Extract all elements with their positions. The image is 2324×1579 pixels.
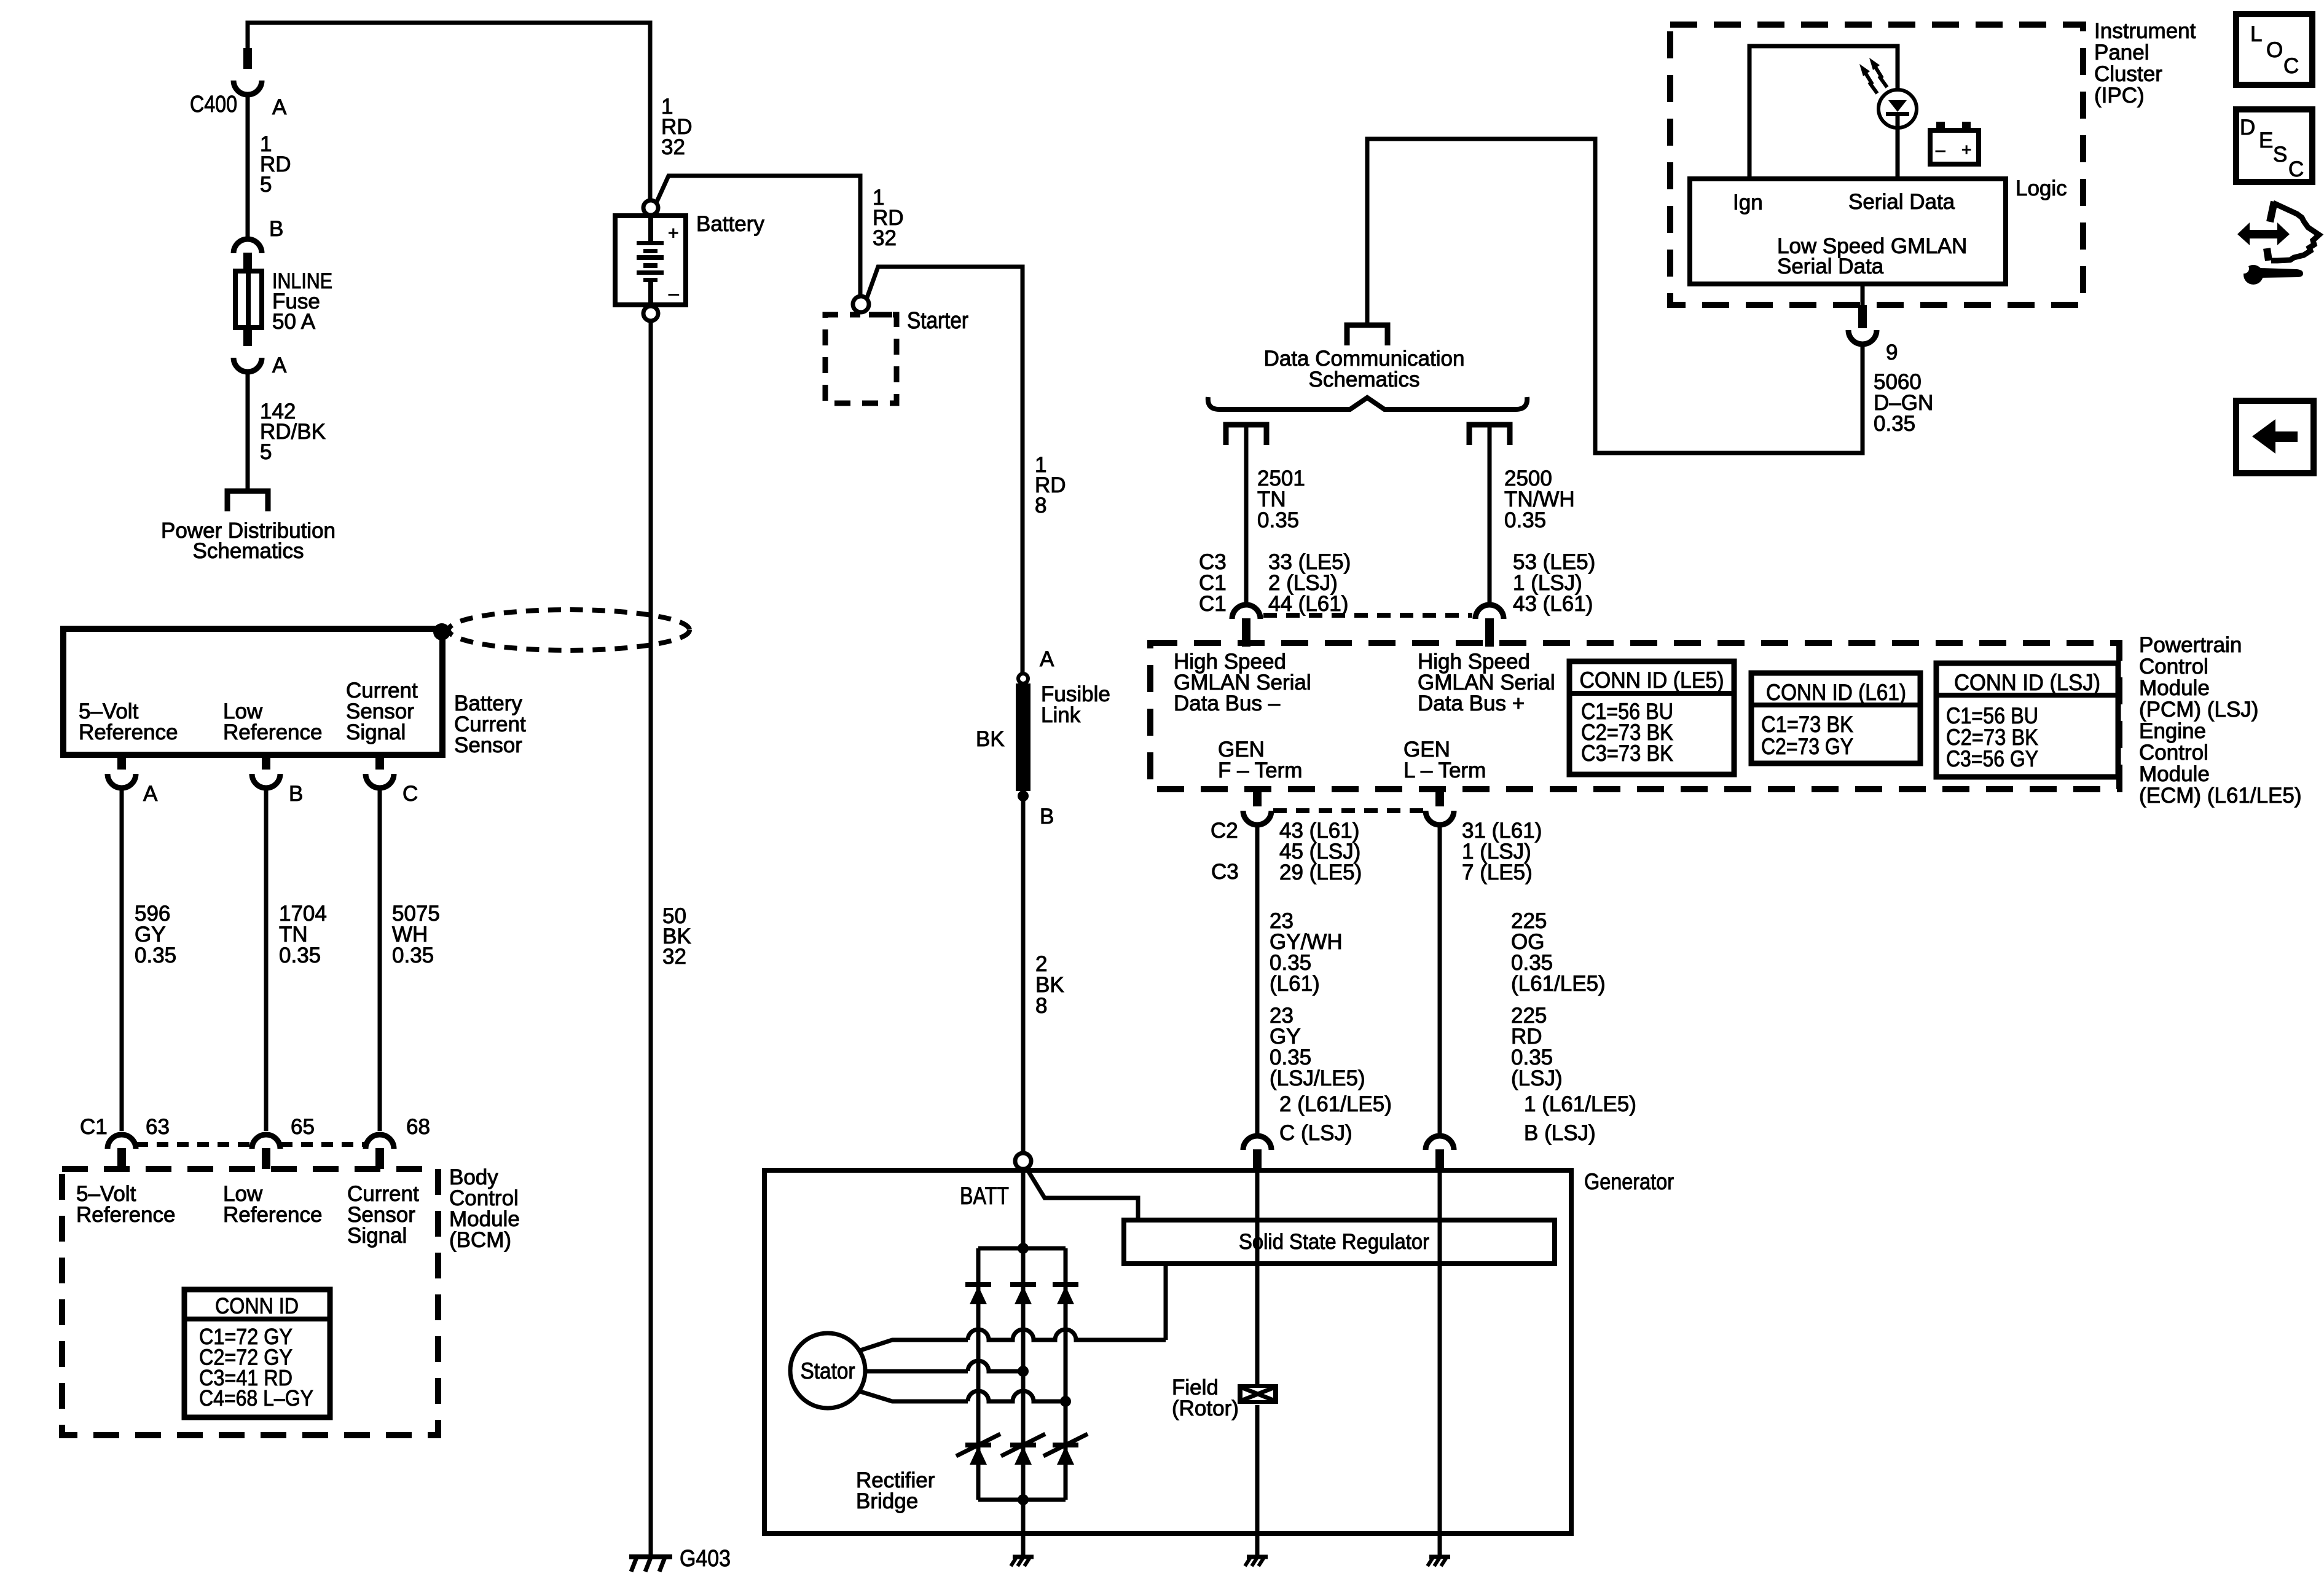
svg-text:Reference: Reference [79, 720, 178, 744]
wire 1 RD 8 from starter to fusible link [867, 267, 1023, 674]
off-page fork to data bus minus [1226, 425, 1266, 445]
svg-text:Schematics: Schematics [1309, 368, 1420, 392]
svg-text:5: 5 [260, 440, 272, 464]
dashed connector face line between data bus pins [1263, 613, 1472, 618]
svg-text:Solid State Regulator: Solid State Regulator [1239, 1230, 1429, 1254]
off-page reference to Power Distribution Schematics [227, 491, 268, 511]
svg-text:(L61/LE5): (L61/LE5) [1511, 972, 1606, 996]
svg-text:D: D [2240, 116, 2255, 140]
svg-text:A: A [1040, 647, 1054, 671]
wire L terminal through regulator to ground [1438, 1170, 1442, 1557]
svg-text:C1=73 BK: C1=73 BK [1761, 712, 1853, 737]
svg-text:CONN ID (LE5): CONN ID (LE5) [1580, 667, 1724, 693]
rectifier leg 1 [976, 1248, 981, 1500]
wire LED to logic box [1896, 116, 1900, 179]
svg-text:Control: Control [2139, 655, 2208, 679]
svg-text:C400: C400 [190, 92, 237, 117]
svg-text:29 (LE5): 29 (LE5) [1279, 860, 1362, 884]
legend DESC icon [2236, 109, 2312, 182]
connector C400 pin A [243, 48, 252, 69]
svg-text:Module: Module [2139, 762, 2210, 786]
svg-text:C3=56 GY: C3=56 GY [1946, 746, 2038, 771]
IPC battery telltale icon [1930, 130, 1979, 164]
connector F terminal at generator [1243, 1136, 1271, 1150]
svg-text:(LSJ/LE5): (LSJ/LE5) [1270, 1066, 1365, 1090]
svg-text:–: – [1936, 140, 1945, 159]
wire 142 RD/BK 5 to power distribution [246, 372, 250, 491]
svg-text:68: 68 [406, 1115, 430, 1139]
svg-text:+: + [1961, 140, 1971, 159]
dashed ellipse around battery cable (current sensor loop) [449, 610, 689, 650]
svg-text:0.35: 0.35 [279, 943, 321, 967]
fusible link terminal A [1018, 674, 1028, 683]
connector at BCM pin [108, 1135, 136, 1149]
svg-text:A: A [272, 95, 287, 119]
svg-text:Instrument: Instrument [2094, 19, 2196, 43]
svg-text:8: 8 [1035, 994, 1047, 1018]
svg-text:Schematics: Schematics [193, 539, 304, 563]
battery BAT1 [615, 216, 686, 305]
svg-text:Serial Data: Serial Data [1777, 254, 1884, 278]
svg-text:CONN ID (L61): CONN ID (L61) [1766, 680, 1906, 705]
svg-text:C4=68 L–GY: C4=68 L–GY [199, 1385, 313, 1411]
lower avalanche diode on leg x=1734 [1053, 1443, 1078, 1447]
svg-text:Reference: Reference [223, 720, 322, 744]
svg-text:63: 63 [146, 1115, 170, 1139]
svg-text:Signal: Signal [346, 720, 406, 744]
connector pin 9 of IPC [1858, 305, 1867, 328]
stator phase 2 wire with hop [865, 1369, 968, 1374]
ground generator rectifier [1013, 1555, 1034, 1559]
svg-text:Stator: Stator [801, 1358, 855, 1384]
svg-text:C: C [2288, 157, 2304, 181]
svg-text:B: B [1040, 805, 1054, 829]
ground L term [1429, 1555, 1450, 1559]
battery B+ terminal [643, 200, 658, 215]
svg-text:1 (L61/LE5): 1 (L61/LE5) [1524, 1092, 1636, 1116]
svg-text:E: E [2259, 128, 2273, 152]
wire 50 BK 32 battery negative to G403 [649, 321, 653, 1557]
svg-text:G403: G403 [680, 1546, 731, 1572]
wire BATT to solid state regulator [1026, 1168, 1138, 1220]
svg-text:(Rotor): (Rotor) [1172, 1396, 1239, 1420]
svg-text:32: 32 [662, 945, 686, 969]
svg-text:C (LSJ): C (LSJ) [1279, 1121, 1352, 1145]
generator box [764, 1170, 1571, 1534]
svg-text:9: 9 [1886, 341, 1898, 364]
upper diode on leg x=1665 [1010, 1282, 1036, 1287]
svg-text:Signal: Signal [347, 1224, 407, 1248]
wire 1 RD 5 from C400 to inline fuse [246, 94, 250, 237]
solid state regulator box [1124, 1220, 1555, 1264]
svg-text:Logic: Logic [2016, 176, 2067, 200]
connector pin B of battery current sensor [262, 755, 270, 770]
junction dot bottom rail [1018, 1494, 1029, 1505]
svg-text:B: B [269, 217, 283, 241]
svg-text:+: + [668, 223, 679, 243]
connector pin A of battery current sensor [117, 755, 126, 770]
svg-text:0.35: 0.35 [392, 943, 434, 967]
BCM CONN ID table [184, 1290, 330, 1417]
wire 1704 TN 0.35 [264, 789, 269, 1131]
svg-text:–: – [669, 283, 679, 304]
fusible link element [1016, 683, 1030, 791]
svg-text:44 (L61): 44 (L61) [1268, 592, 1348, 616]
dashed connector face line between F and L pins [1273, 808, 1424, 813]
svg-text:Data Bus +: Data Bus + [1418, 691, 1525, 715]
connector B of inline fuse [234, 239, 262, 253]
svg-text:Reference: Reference [76, 1203, 175, 1227]
svg-text:Data Bus –: Data Bus – [1174, 691, 1281, 715]
CONN ID (LSJ) table [1936, 663, 2118, 777]
svg-text:Engine: Engine [2139, 719, 2206, 743]
rectifier bottom rail [978, 1498, 1066, 1502]
upper diode on leg x=1734 [1053, 1282, 1078, 1287]
svg-text:43 (L61): 43 (L61) [1513, 592, 1593, 616]
dashed connector face line between BCM pins B-C [281, 1142, 366, 1147]
starter dashed box [869, 312, 892, 318]
svg-text:Panel: Panel [2094, 41, 2149, 65]
svg-text:C: C [2283, 54, 2299, 78]
powertrain control module dashed box [1150, 643, 2119, 789]
lower avalanche diode on leg x=1592 [965, 1443, 991, 1447]
connector GEN L-Term at PCM [1435, 789, 1444, 806]
svg-text:C3=73 BK: C3=73 BK [1581, 741, 1673, 766]
logic box of IPC [1690, 179, 2006, 284]
svg-text:7 (LE5): 7 (LE5) [1462, 860, 1533, 884]
wire BATT to rectifier top rail [1021, 1169, 1026, 1248]
svg-text:B (LSJ): B (LSJ) [1524, 1121, 1596, 1145]
wire logic box to IPC pin 9 [1861, 284, 1865, 307]
svg-text:CONN ID: CONN ID [215, 1293, 299, 1318]
wire 2500 TN/WH 0.35 [1488, 425, 1492, 604]
svg-text:Powertrain: Powertrain [2139, 633, 2242, 657]
wire regulator sense to stator phase 1 [1164, 1264, 1168, 1340]
svg-text:5: 5 [260, 173, 272, 197]
upper diode on leg x=1592 [965, 1282, 991, 1287]
legend back arrow icon [2236, 401, 2314, 473]
svg-text:C1: C1 [1199, 592, 1227, 616]
svg-text:(IPC): (IPC) [2094, 84, 2145, 108]
svg-text:S: S [2273, 143, 2287, 167]
svg-text:C2: C2 [1211, 819, 1238, 843]
stator winding circle [790, 1333, 865, 1408]
wire telltale loop [1749, 46, 1898, 179]
wire 225 OG to generator L terminal [1438, 826, 1442, 1135]
svg-text:32: 32 [661, 135, 685, 159]
svg-text:A: A [143, 782, 158, 806]
legend LOC icon [2236, 14, 2312, 85]
svg-text:2 (L61/LE5): 2 (L61/LE5) [1279, 1092, 1392, 1116]
ground field winding [1247, 1555, 1268, 1559]
connector at BCM pin [252, 1135, 280, 1149]
svg-text:(BCM): (BCM) [449, 1228, 511, 1252]
connector data bus plus at PCM [1475, 605, 1504, 619]
off-page reference to data communication schematics (serial data) [1347, 325, 1388, 345]
connector pin C of battery current sensor [375, 755, 384, 770]
svg-text:O: O [2266, 38, 2283, 62]
LED emission arrows [1864, 71, 1877, 93]
svg-text:(PCM) (LSJ): (PCM) (LSJ) [2139, 698, 2258, 722]
off-page fork to data bus plus [1469, 425, 1510, 445]
svg-text:A: A [272, 353, 287, 377]
svg-text:F – Term: F – Term [1218, 758, 1302, 782]
CONN ID (LE5) table [1569, 661, 1734, 774]
wire 5075 WH 0.35 [378, 789, 382, 1131]
battery negative terminal [643, 306, 658, 321]
stator phase 1 wire with hops [860, 1340, 968, 1350]
svg-text:32: 32 [873, 226, 897, 250]
wire battery positive feed from C400 run to battery [248, 23, 650, 199]
wire 596 GY 0.35 [120, 789, 124, 1131]
stator phase 3 wire with hops [860, 1392, 968, 1401]
fusible link terminal B (junction) [1018, 790, 1029, 801]
svg-text:Generator: Generator [1584, 1169, 1674, 1194]
connector GEN F-Term at PCM [1253, 789, 1262, 806]
rectifier top rail [978, 1246, 1066, 1251]
wire field to ground [1255, 1405, 1260, 1557]
svg-text:Module: Module [2139, 676, 2210, 700]
junction dot phase 3 to leg 3 [1060, 1396, 1071, 1407]
svg-text:(ECM) (L61/LE5): (ECM) (L61/LE5) [2139, 784, 2302, 808]
svg-text:B: B [289, 782, 303, 806]
svg-text:Cluster: Cluster [2094, 62, 2162, 86]
svg-text:Sensor: Sensor [454, 733, 522, 757]
svg-text:8: 8 [1035, 494, 1046, 518]
svg-text:(L61): (L61) [1270, 972, 1320, 996]
svg-text:L – Term: L – Term [1403, 758, 1486, 782]
battery current sensor box [63, 629, 442, 755]
lower avalanche diode on leg x=1665 [1010, 1443, 1036, 1447]
field rotor winding symbol [1238, 1384, 1278, 1404]
svg-text:CONN ID (LSJ): CONN ID (LSJ) [1954, 670, 2100, 695]
rectifier leg 2 [1021, 1248, 1026, 1500]
wire low speed GMLAN serial data to data communication [1367, 139, 1863, 453]
svg-text:Ign: Ign [1733, 191, 1763, 215]
connector L terminal at generator [1426, 1136, 1454, 1150]
junction dot top rail [1018, 1243, 1029, 1254]
svg-text:Reference: Reference [223, 1203, 322, 1227]
junction dot phase 2 to leg 2 [1018, 1366, 1029, 1377]
generator BATT terminal [1015, 1153, 1031, 1169]
svg-text:65: 65 [291, 1115, 315, 1139]
svg-text:L: L [2250, 22, 2262, 46]
starter B+ terminal [853, 296, 869, 312]
legend hand with wrench icon [2248, 230, 2279, 238]
svg-text:0.35: 0.35 [1504, 508, 1546, 532]
wire F terminal through regulator to field [1255, 1170, 1260, 1385]
CONN ID (L61) table [1751, 673, 1920, 763]
junction node at sensor corner [433, 623, 450, 640]
svg-text:50 A: 50 A [272, 310, 316, 334]
svg-text:Link: Link [1041, 703, 1081, 727]
svg-text:Serial Data: Serial Data [1848, 190, 1955, 214]
svg-text:BATT: BATT [960, 1183, 1009, 1210]
wire 2 BK 8 to generator BATT [1021, 796, 1026, 1154]
svg-text:(LSJ): (LSJ) [1511, 1066, 1563, 1090]
wire battery positive to starter [656, 176, 860, 295]
svg-text:0.35: 0.35 [1874, 412, 1915, 436]
body control module BCM dashed box [62, 1169, 438, 1435]
wire 23 GY/WH to generator F terminal [1255, 826, 1260, 1135]
connector at BCM pin [366, 1135, 394, 1149]
wire 2501 TN 0.35 [1244, 425, 1249, 604]
wire rectifier to generator case ground [1021, 1500, 1026, 1557]
svg-text:Starter: Starter [907, 308, 968, 334]
svg-text:C3: C3 [1211, 860, 1239, 884]
connector A of inline fuse [243, 326, 252, 346]
ground G403 [629, 1554, 672, 1559]
charge indicator LED [1878, 90, 1917, 128]
instrument panel cluster dashed box [1670, 25, 2083, 305]
svg-text:Bridge: Bridge [856, 1489, 918, 1513]
inline fuse F1 50 A [235, 271, 262, 328]
svg-text:0.35: 0.35 [1257, 508, 1299, 532]
dashed connector face line between BCM pins A-B [136, 1142, 252, 1147]
svg-text:0.35: 0.35 [135, 943, 176, 967]
rectifier leg 3 [1064, 1248, 1068, 1500]
svg-text:C2=73 GY: C2=73 GY [1761, 734, 1853, 759]
svg-text:Battery: Battery [696, 212, 764, 236]
connector data bus minus at PCM [1232, 605, 1260, 619]
svg-text:C: C [402, 782, 418, 806]
svg-text:C1: C1 [80, 1115, 108, 1139]
svg-text:Control: Control [2139, 741, 2208, 765]
brace over data bus wires [1208, 397, 1527, 409]
svg-text:BK: BK [976, 727, 1005, 751]
